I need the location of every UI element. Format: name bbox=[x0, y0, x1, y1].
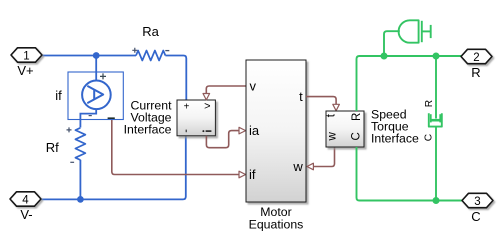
svg-text:C: C bbox=[351, 132, 363, 140]
svg-text:2: 2 bbox=[473, 52, 479, 64]
port 4 (V-) bbox=[10, 192, 41, 222]
resistor Rf bbox=[46, 127, 86, 162]
current sensor if (ammeter subsystem) bbox=[55, 72, 123, 128]
svg-text:Rf: Rf bbox=[46, 140, 59, 155]
svg-text:R: R bbox=[351, 113, 363, 121]
svg-text:t: t bbox=[299, 89, 303, 104]
port 3 (C) bbox=[462, 193, 493, 224]
wire blue: junction down into current sensor bbox=[95, 56, 97, 82]
svg-text:Ra: Ra bbox=[142, 24, 159, 39]
svg-text:v: v bbox=[250, 78, 257, 93]
wire blue: Ra to Current Voltage Interface + port bbox=[165, 56, 186, 101]
inertia bbox=[399, 20, 431, 42]
signal wire: Speed Torque Interface w out to Motor Equations w input bbox=[307, 147, 335, 170]
subsystem Motor Equations bbox=[246, 60, 306, 232]
svg-text:Interface: Interface bbox=[124, 122, 172, 136]
svg-text:V-: V- bbox=[20, 207, 32, 222]
signal wire: Current Voltage Interface i out to Motor Equations ia input bbox=[206, 127, 245, 147]
svg-text:if: if bbox=[55, 88, 62, 103]
wire blue: port1 to junction to Ra bbox=[42, 55, 136, 57]
svg-text:w: w bbox=[326, 131, 338, 141]
wire green: damper branch upper bbox=[435, 56, 437, 119]
svg-text:C: C bbox=[471, 209, 480, 224]
subsystem Speed Torque Interface bbox=[326, 107, 419, 147]
junction node green C rail bbox=[433, 197, 440, 204]
junction node on V+ rail bbox=[93, 52, 100, 59]
junction node on V- rail bbox=[77, 196, 84, 203]
svg-text:Equations: Equations bbox=[249, 218, 304, 232]
svg-text:V+: V+ bbox=[17, 63, 33, 78]
port 1 (V+) bbox=[11, 48, 42, 78]
svg-text:w: w bbox=[292, 159, 303, 174]
svg-text:3: 3 bbox=[474, 196, 480, 208]
svg-text:+: + bbox=[184, 102, 190, 113]
svg-text:Interface: Interface bbox=[371, 131, 419, 145]
svg-text:if: if bbox=[249, 167, 256, 182]
resistor Ra bbox=[132, 24, 169, 60]
svg-text:C: C bbox=[423, 134, 434, 141]
wire blue: port4 rail to Current Voltage Interface - port bbox=[41, 136, 186, 200]
svg-text:1: 1 bbox=[23, 50, 29, 62]
port 2 (R) bbox=[461, 49, 492, 80]
svg-text:R: R bbox=[471, 65, 480, 80]
wire blue: Rf to bottom junction bbox=[79, 160, 81, 200]
subsystem Current Voltage Interface bbox=[124, 98, 216, 136]
svg-text:4: 4 bbox=[22, 194, 29, 206]
wire green: Speed Torque Interface C down and right to port3 bbox=[357, 147, 463, 201]
junction node green R rail right bbox=[433, 53, 440, 60]
svg-text:>: > bbox=[204, 101, 210, 113]
damper bbox=[423, 100, 442, 141]
wire green: R rail from port2 down to Speed Torque Interface R bbox=[357, 56, 462, 111]
signal wire: Motor Equations v out to Current Voltage Interface top bbox=[203, 86, 246, 100]
wire green: inertia branch bbox=[384, 31, 400, 56]
svg-text:ia: ia bbox=[249, 123, 260, 138]
junction node green R rail left bbox=[381, 53, 388, 60]
svg-text:R: R bbox=[424, 100, 435, 107]
signal wire: Motor Equations t out to Speed Torque Interface top bbox=[306, 97, 339, 111]
signal wire: ammeter I out to Motor Equations if input bbox=[112, 120, 246, 178]
wire green: damper branch lower bbox=[435, 128, 437, 201]
